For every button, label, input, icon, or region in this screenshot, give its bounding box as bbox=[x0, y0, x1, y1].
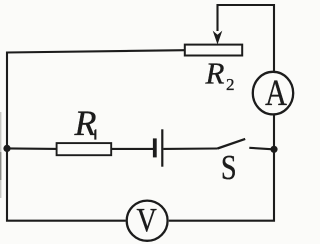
svg-text:A: A bbox=[265, 73, 287, 114]
scan artifact: faint left edge streak bbox=[0, 112, 1, 198]
wire: wiper to top-right corner down to ammeter top bbox=[218, 5, 275, 71]
node: right junction bbox=[270, 146, 277, 153]
svg-text:R: R bbox=[205, 56, 225, 91]
svg-text:2: 2 bbox=[226, 75, 235, 94]
wire: R1 to battery bbox=[111, 148, 153, 150]
battery cell bbox=[153, 129, 164, 166]
wire: ammeter bottom down right side to bottom-right corner and left to voltmeter bbox=[169, 115, 274, 221]
ammeter A bbox=[253, 72, 293, 115]
switch S lever bbox=[218, 139, 246, 149]
node: left junction bbox=[3, 145, 10, 152]
wire: left loop (top-left horizontal, left vertical, bottom-left horizontal) bbox=[7, 50, 185, 221]
wire: left node to R1 bbox=[7, 147, 58, 150]
label R1 bbox=[74, 103, 97, 143]
rheostat R2 bbox=[185, 31, 242, 56]
voltmeter V bbox=[127, 201, 168, 241]
resistor R1 bbox=[57, 143, 112, 155]
svg-text:S: S bbox=[221, 148, 237, 186]
wire: switch contact to right node bbox=[249, 148, 275, 150]
label R2 bbox=[205, 56, 235, 94]
svg-text:V: V bbox=[137, 201, 157, 239]
wire: battery to switch pivot bbox=[163, 147, 217, 149]
svg-text:R: R bbox=[74, 103, 97, 143]
